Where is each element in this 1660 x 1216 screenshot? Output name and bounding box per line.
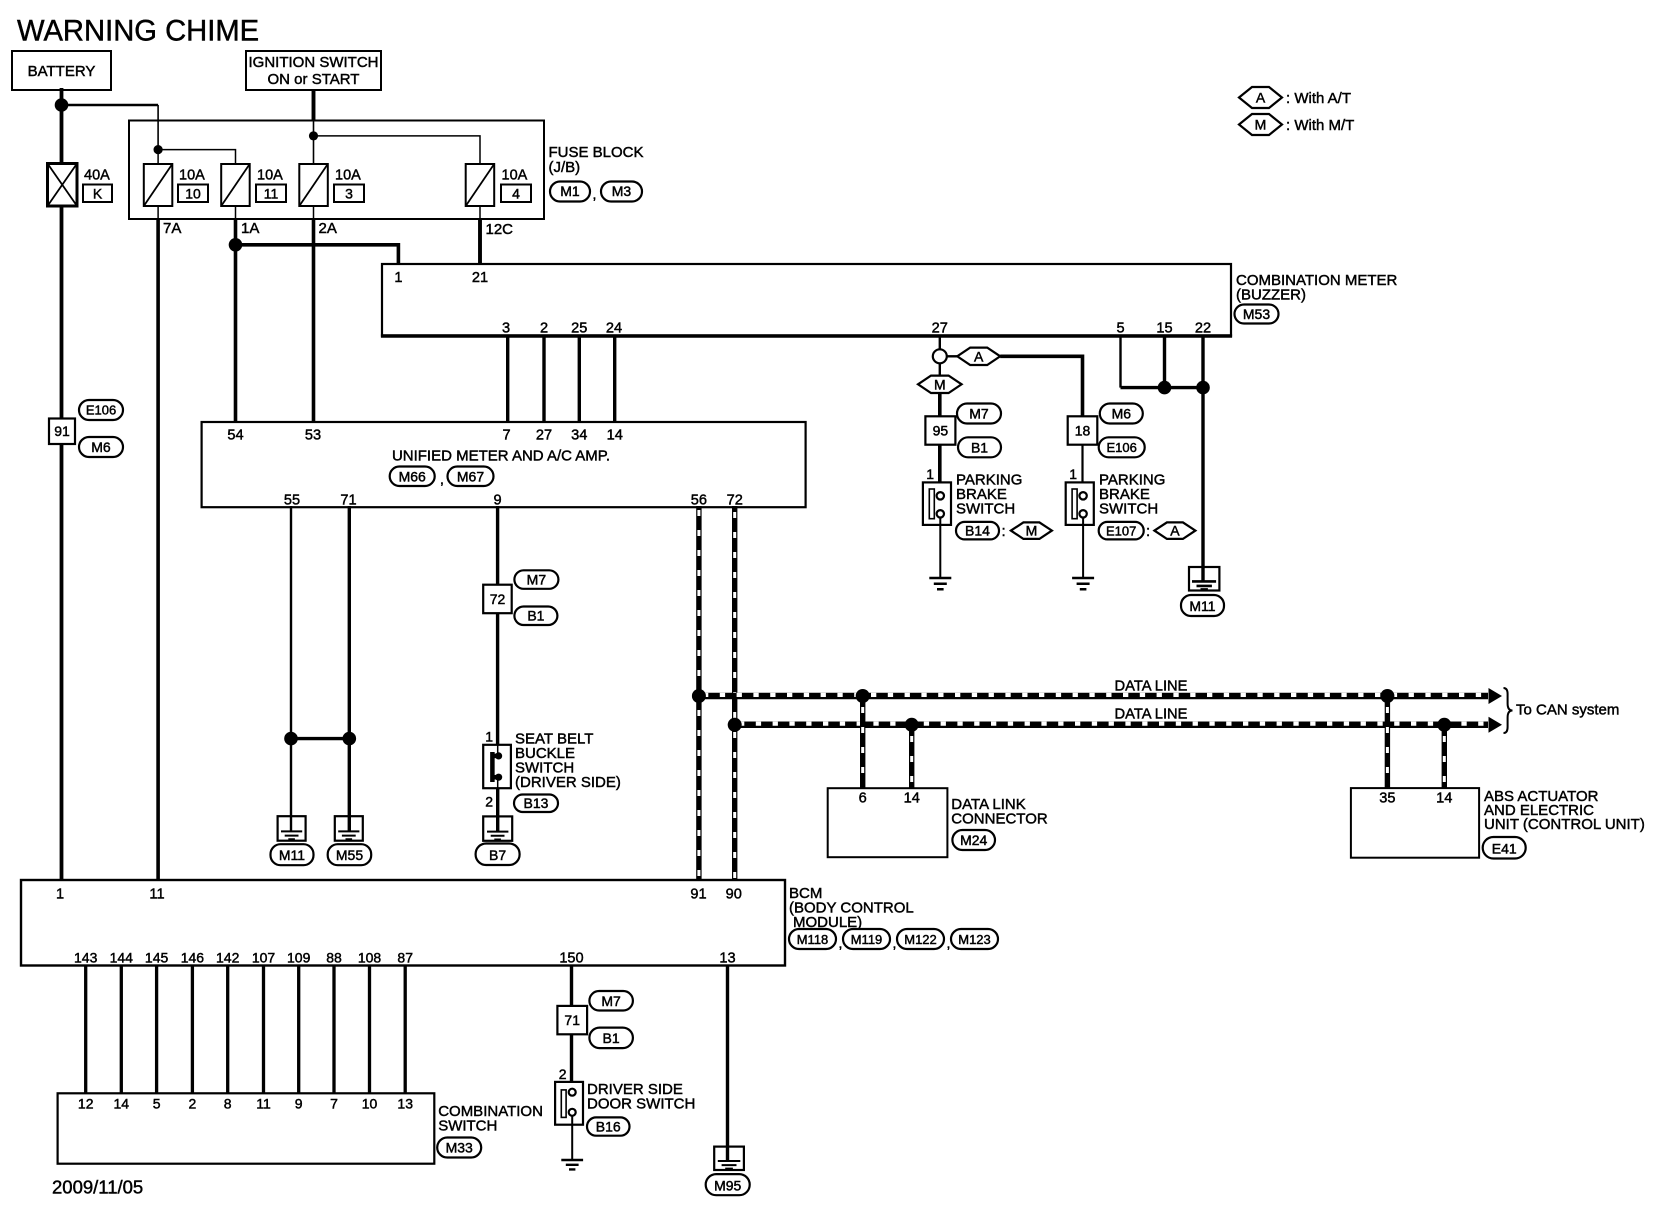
connector 18 M6/E106 bbox=[1068, 404, 1145, 458]
svg-text:5: 5 bbox=[153, 1096, 161, 1112]
svg-text:CONNECTOR: CONNECTOR bbox=[951, 811, 1048, 828]
svg-text:M67: M67 bbox=[457, 469, 484, 485]
node join 15 bbox=[1158, 381, 1172, 395]
svg-text:M7: M7 bbox=[527, 571, 547, 587]
wire branch to fuse 11 bbox=[158, 150, 235, 164]
wire BCM pin108 bbox=[368, 966, 371, 1094]
svg-text:146: 146 bbox=[181, 950, 205, 966]
svg-text:M: M bbox=[1255, 117, 1267, 133]
fusible link 40A K bbox=[48, 164, 113, 207]
data line 2 (CAN L) bbox=[735, 724, 1488, 725]
svg-text:SWITCH: SWITCH bbox=[1099, 501, 1158, 518]
svg-text:E41: E41 bbox=[1492, 841, 1517, 857]
connector 72 M7/B1 bbox=[483, 570, 558, 625]
connector E107 : A bbox=[1099, 522, 1196, 540]
wire meter pin24 to amp pin14 bbox=[613, 336, 616, 423]
svg-text:A: A bbox=[1170, 523, 1180, 539]
svg-text:,: , bbox=[893, 935, 897, 951]
wire BCM pin150 down bbox=[570, 966, 573, 1006]
svg-text:12C: 12C bbox=[486, 221, 514, 238]
svg-text:21: 21 bbox=[472, 270, 488, 286]
wire 95 to parking brake switch B14 bbox=[938, 445, 942, 493]
svg-text:18: 18 bbox=[1075, 423, 1091, 439]
parking brake switch B14 bbox=[923, 472, 1023, 525]
svg-text:A: A bbox=[1256, 90, 1266, 106]
svg-text:M6: M6 bbox=[1112, 406, 1132, 422]
svg-text:SWITCH: SWITCH bbox=[438, 1118, 497, 1135]
svg-text:72: 72 bbox=[490, 591, 506, 607]
svg-text:142: 142 bbox=[216, 950, 240, 966]
ground M55 bbox=[328, 816, 372, 865]
svg-text:11: 11 bbox=[256, 1096, 271, 1112]
wire amp pin9 down bbox=[496, 506, 499, 585]
node data line1 at ABS bbox=[1380, 689, 1394, 703]
wire branch to fuse 4 bbox=[314, 136, 481, 164]
wire battery vertical bbox=[60, 88, 64, 164]
svg-text:2009/11/05: 2009/11/05 bbox=[52, 1177, 143, 1198]
svg-text:56: 56 bbox=[691, 492, 707, 508]
svg-text:12: 12 bbox=[78, 1096, 94, 1112]
svg-text:11: 11 bbox=[264, 186, 279, 202]
svg-text:M53: M53 bbox=[1243, 306, 1270, 322]
wire data line2 drop to ABS pin14 bbox=[1442, 725, 1447, 788]
svg-text:54: 54 bbox=[227, 427, 243, 443]
svg-text:M123: M123 bbox=[958, 932, 991, 947]
svg-text:UNIFIED METER AND A/C AMP.: UNIFIED METER AND A/C AMP. bbox=[392, 448, 610, 465]
wire 1A branch to combination meter pin 1 bbox=[236, 245, 399, 264]
wire 18 to parking brake switch E107 bbox=[1081, 445, 1083, 493]
node data line2 at ABS bbox=[1437, 718, 1451, 732]
legend hexagon M bbox=[1239, 114, 1354, 135]
svg-text:10: 10 bbox=[362, 1096, 378, 1112]
svg-text::: : bbox=[1146, 523, 1150, 540]
wire meter pin27 down bbox=[939, 336, 941, 350]
svg-text:3: 3 bbox=[502, 321, 510, 337]
svg-text:M122: M122 bbox=[904, 932, 937, 947]
svg-text:1A: 1A bbox=[241, 220, 259, 237]
BCM body control module box bbox=[21, 880, 785, 967]
fuse 10 10A bbox=[144, 164, 208, 219]
svg-text:40A: 40A bbox=[84, 168, 110, 184]
svg-text:,: , bbox=[839, 935, 843, 951]
svg-text:M55: M55 bbox=[336, 847, 363, 863]
svg-text:91: 91 bbox=[690, 887, 706, 903]
wire amp pin56 to BCM pin91 (shielded) bbox=[696, 506, 701, 880]
seat belt buckle switch B13 bbox=[483, 731, 621, 792]
svg-text:E106: E106 bbox=[86, 403, 116, 418]
svg-text:145: 145 bbox=[145, 950, 169, 966]
wire 72 to seat belt switch bbox=[496, 613, 499, 745]
wire meter pin25 to amp pin34 bbox=[578, 336, 581, 423]
wire 1A to unified meter pin 54 bbox=[234, 219, 238, 422]
svg-text:10: 10 bbox=[185, 186, 201, 202]
wire circle to A hexagon bbox=[947, 355, 958, 357]
svg-text:: With A/T: : With A/T bbox=[1286, 90, 1351, 107]
svg-text:DATA LINE: DATA LINE bbox=[1115, 678, 1188, 694]
svg-text:1: 1 bbox=[1069, 466, 1077, 482]
connector 91 E106/M6 bbox=[49, 400, 123, 457]
brace to CAN bbox=[1504, 688, 1513, 733]
svg-text:1: 1 bbox=[485, 729, 493, 745]
svg-text:M: M bbox=[934, 376, 946, 392]
svg-text:143: 143 bbox=[74, 950, 98, 966]
svg-text:(J/B): (J/B) bbox=[549, 159, 581, 176]
svg-text:3: 3 bbox=[345, 186, 353, 202]
wire data line2 drop to DLC pin14 bbox=[909, 725, 914, 788]
svg-text:14: 14 bbox=[114, 1096, 130, 1112]
wire E107 to ground bbox=[1082, 518, 1084, 579]
svg-text:To CAN system: To CAN system bbox=[1516, 702, 1619, 719]
wire amp pin71 to ground bbox=[348, 506, 351, 831]
svg-text:B13: B13 bbox=[524, 795, 549, 811]
svg-text:10A: 10A bbox=[502, 168, 528, 184]
svg-text:11: 11 bbox=[149, 887, 164, 903]
svg-text:25: 25 bbox=[571, 321, 587, 337]
svg-text:9: 9 bbox=[494, 492, 502, 508]
parking brake switch E107 bbox=[1066, 472, 1166, 525]
svg-text:2: 2 bbox=[540, 321, 548, 337]
svg-text::: : bbox=[1002, 523, 1006, 540]
node link 71 bbox=[343, 732, 357, 746]
svg-text:22: 22 bbox=[1195, 321, 1211, 337]
svg-text:SWITCH: SWITCH bbox=[956, 501, 1015, 518]
svg-text:UNIT (CONTROL UNIT): UNIT (CONTROL UNIT) bbox=[1484, 816, 1645, 833]
wire meter pin22 to ground M11 bbox=[1201, 336, 1204, 582]
svg-text:K: K bbox=[93, 186, 103, 202]
svg-text:B16: B16 bbox=[596, 1118, 621, 1134]
ground B16 bbox=[561, 1160, 583, 1169]
BCM labels M118 M119 M122 M123 bbox=[789, 885, 998, 951]
svg-text:: With M/T: : With M/T bbox=[1286, 117, 1354, 134]
wire door switch to ground bbox=[571, 1116, 573, 1160]
wire to fuse 10 bbox=[157, 150, 159, 164]
wire data line1 drop to DLC pin6 bbox=[860, 696, 865, 788]
svg-text:,: , bbox=[593, 186, 597, 202]
svg-text:,: , bbox=[440, 471, 444, 487]
svg-text:150: 150 bbox=[559, 951, 583, 967]
svg-text:88: 88 bbox=[326, 950, 342, 966]
svg-text:24: 24 bbox=[606, 321, 622, 337]
wire BCM pin109 bbox=[297, 966, 300, 1094]
wire 12C to combination meter pin 21 bbox=[478, 219, 482, 264]
svg-text:14: 14 bbox=[1436, 791, 1452, 807]
wire A hexagon to connector 18 bbox=[1000, 356, 1082, 416]
connector B14 : M bbox=[956, 522, 1052, 540]
hexagon M (with M/T) bbox=[918, 376, 962, 393]
arrow data line 1 bbox=[1489, 688, 1503, 704]
wire BCM pin142 bbox=[226, 966, 229, 1094]
svg-text:E106: E106 bbox=[1107, 440, 1137, 455]
combination meter (buzzer) M53 box bbox=[381, 264, 1232, 337]
svg-text:95: 95 bbox=[933, 423, 949, 439]
wire B14 to ground bbox=[939, 518, 941, 579]
svg-text:72: 72 bbox=[727, 492, 743, 508]
node 1A branch bbox=[229, 238, 243, 252]
svg-text:14: 14 bbox=[607, 427, 623, 443]
svg-text:M33: M33 bbox=[446, 1140, 473, 1156]
svg-text:M11: M11 bbox=[1189, 598, 1215, 614]
ground E107 bbox=[1072, 578, 1094, 589]
fuse 4 10A bbox=[466, 164, 531, 219]
wire meter pin2 to amp pin27 bbox=[542, 336, 545, 423]
svg-text:2: 2 bbox=[559, 1066, 567, 1082]
svg-text:108: 108 bbox=[358, 950, 382, 966]
legend hexagon A bbox=[1239, 87, 1351, 108]
svg-text:71: 71 bbox=[564, 1012, 580, 1028]
wire 2A to unified meter pin 53 bbox=[312, 219, 316, 422]
fuse block label M1 M3 bbox=[549, 144, 644, 202]
svg-text:WARNING CHIME: WARNING CHIME bbox=[17, 16, 259, 48]
wire drop into fuse block bbox=[157, 105, 159, 150]
ground M11 left bbox=[271, 816, 314, 865]
svg-text:M: M bbox=[1026, 523, 1038, 539]
node battery junction bbox=[55, 98, 69, 112]
svg-text:13: 13 bbox=[719, 951, 735, 967]
node data line2 at 72 bbox=[728, 718, 742, 732]
wire data line1 drop to ABS pin35 bbox=[1385, 696, 1390, 788]
svg-text:2A: 2A bbox=[319, 220, 337, 237]
svg-text:B1: B1 bbox=[603, 1030, 620, 1046]
wire join 5/15/22 bbox=[1121, 386, 1204, 389]
fuse 11 10A bbox=[221, 164, 286, 219]
unified meter and A/C amp box bbox=[202, 422, 806, 508]
svg-text:IGNITION SWITCH: IGNITION SWITCH bbox=[249, 54, 379, 71]
fuse block J/B outline bbox=[129, 121, 544, 220]
wire ignition inside fuse block bbox=[313, 121, 315, 164]
wire BCM pin87 bbox=[404, 966, 407, 1094]
wire battery to BCM pin1 bbox=[60, 206, 64, 880]
svg-text:2: 2 bbox=[485, 794, 493, 810]
ground B14 bbox=[929, 578, 951, 589]
svg-text:7: 7 bbox=[502, 427, 510, 443]
svg-text:7: 7 bbox=[330, 1096, 338, 1112]
svg-text:6: 6 bbox=[859, 791, 867, 807]
wire meter pin3 to amp pin7 bbox=[506, 336, 509, 422]
svg-text:15: 15 bbox=[1156, 321, 1172, 337]
svg-text:34: 34 bbox=[571, 427, 587, 443]
svg-text:144: 144 bbox=[110, 950, 134, 966]
svg-text:A: A bbox=[974, 348, 984, 364]
svg-text:4: 4 bbox=[512, 186, 520, 202]
connector 95 M7/B1 bbox=[925, 404, 1001, 458]
svg-text:BATTERY: BATTERY bbox=[28, 63, 96, 80]
wire BCM pin107 bbox=[262, 966, 265, 1094]
arrow data line 2 bbox=[1489, 717, 1503, 733]
wire BCM pin145 bbox=[155, 966, 158, 1094]
node link 55 bbox=[284, 732, 298, 746]
data link connector box M24 bbox=[828, 788, 1048, 857]
svg-text:14: 14 bbox=[904, 791, 920, 807]
svg-text:35: 35 bbox=[1379, 791, 1395, 807]
wire seat belt switch to ground bbox=[496, 788, 499, 831]
node fuse block branch 7A/1A bbox=[154, 145, 163, 154]
svg-text:1: 1 bbox=[926, 466, 934, 482]
connector 71 M7/B1 bbox=[557, 991, 633, 1048]
node data line2 at DLC bbox=[905, 718, 919, 732]
node join 22 bbox=[1196, 381, 1210, 395]
battery box bbox=[12, 51, 111, 90]
svg-text:DATA LINE: DATA LINE bbox=[1115, 707, 1188, 723]
svg-text:M6: M6 bbox=[91, 439, 111, 455]
wire M hexagon to connector 95 bbox=[938, 393, 942, 416]
svg-text:(DRIVER SIDE): (DRIVER SIDE) bbox=[515, 774, 621, 791]
svg-text:ON or START: ON or START bbox=[268, 71, 360, 88]
wire ignition to fuse block bbox=[312, 90, 316, 121]
combination meter labels bbox=[1235, 272, 1398, 324]
svg-text:9: 9 bbox=[295, 1096, 303, 1112]
connector B16 oval bbox=[587, 1117, 630, 1135]
node open circle pin27 bbox=[933, 349, 947, 363]
wire BCM pin143 bbox=[84, 966, 87, 1094]
data line 1 (CAN H) bbox=[699, 695, 1488, 696]
svg-text:E107: E107 bbox=[1106, 523, 1136, 538]
wire amp pin72 to BCM pin90 (shielded) bbox=[732, 506, 737, 880]
ignition switch box bbox=[246, 51, 381, 90]
fuse 3 10A bbox=[299, 164, 364, 219]
combination switch box M33 bbox=[58, 1093, 543, 1163]
svg-text:5: 5 bbox=[1116, 321, 1124, 337]
svg-text:(BUZZER): (BUZZER) bbox=[1236, 287, 1306, 304]
wire battery branch to fuse block bbox=[62, 104, 159, 106]
wire BCM pin88 bbox=[332, 966, 335, 1094]
hexagon A (with A/T) bbox=[957, 348, 1000, 365]
svg-text:M7: M7 bbox=[601, 993, 621, 1009]
svg-text:87: 87 bbox=[397, 950, 413, 966]
wire meter pin5 down bbox=[1119, 336, 1121, 388]
wire BCM pin13 to ground M95 bbox=[726, 966, 729, 1162]
svg-text:1: 1 bbox=[56, 887, 64, 903]
svg-text:107: 107 bbox=[252, 950, 276, 966]
wire amp pin55 to ground bbox=[290, 506, 292, 831]
svg-text:M24: M24 bbox=[960, 832, 987, 848]
svg-text:7A: 7A bbox=[163, 220, 181, 237]
svg-text:M7: M7 bbox=[969, 406, 989, 422]
svg-text:71: 71 bbox=[340, 492, 356, 508]
wire 71 to door switch bbox=[570, 1034, 573, 1089]
svg-text:2: 2 bbox=[189, 1096, 197, 1112]
svg-text:91: 91 bbox=[54, 423, 70, 439]
svg-text:109: 109 bbox=[287, 950, 311, 966]
ground B7 bbox=[476, 816, 520, 865]
node data line1 at 56 bbox=[692, 689, 706, 703]
svg-text:90: 90 bbox=[726, 887, 742, 903]
svg-text:10A: 10A bbox=[179, 168, 205, 184]
svg-text:M118: M118 bbox=[797, 932, 829, 947]
svg-text:53: 53 bbox=[305, 427, 321, 443]
svg-text:10A: 10A bbox=[257, 168, 283, 184]
svg-text:27: 27 bbox=[536, 427, 552, 443]
svg-text:M119: M119 bbox=[851, 932, 883, 947]
svg-text:M66: M66 bbox=[399, 469, 426, 485]
svg-text:DOOR SWITCH: DOOR SWITCH bbox=[587, 1096, 695, 1113]
wire link 55-71 bbox=[291, 737, 349, 740]
driver side door switch B16 bbox=[555, 1081, 695, 1125]
svg-text:13: 13 bbox=[397, 1096, 413, 1112]
wire 7A to BCM pin 11 bbox=[156, 219, 160, 880]
wire meter pin15 down bbox=[1163, 336, 1166, 388]
node fuse block branch 2A/12C bbox=[309, 131, 318, 140]
svg-text:55: 55 bbox=[284, 492, 300, 508]
wire BCM pin144 bbox=[120, 966, 123, 1094]
svg-text:,: , bbox=[947, 935, 951, 951]
svg-text:B14: B14 bbox=[965, 523, 990, 539]
svg-text:B1: B1 bbox=[527, 608, 544, 624]
ground M11 right bbox=[1181, 567, 1224, 616]
svg-text:10A: 10A bbox=[335, 168, 361, 184]
ground M95 bbox=[706, 1147, 750, 1196]
svg-text:M95: M95 bbox=[714, 1178, 741, 1194]
svg-text:M11: M11 bbox=[279, 847, 305, 863]
svg-text:M3: M3 bbox=[612, 183, 632, 199]
svg-text:B7: B7 bbox=[489, 847, 506, 863]
ABS actuator box E41 bbox=[1351, 788, 1645, 859]
connector B13 oval bbox=[514, 795, 558, 813]
svg-text:1: 1 bbox=[394, 270, 402, 286]
node data line1 at DLC bbox=[856, 689, 870, 703]
svg-text:27: 27 bbox=[932, 321, 948, 337]
wire circle to M hexagon bbox=[939, 363, 941, 376]
svg-text:M1: M1 bbox=[560, 183, 580, 199]
svg-text:B1: B1 bbox=[971, 439, 988, 455]
wire BCM pin146 bbox=[191, 966, 194, 1094]
svg-text:8: 8 bbox=[224, 1096, 232, 1112]
